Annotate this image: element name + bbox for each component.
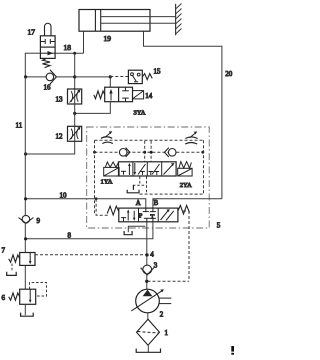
node LS [145,280,148,283]
check valve C2 [165,148,177,157]
sq1 marks [121,170,126,172]
svg-text:2: 2 [160,311,164,319]
check valve C1 [119,148,130,157]
solenoid valve 14 [94,87,144,102]
svg-text:3: 3 [154,262,158,270]
right pilot dashed (LS line) [148,211,190,281]
svg-text:1: 1 [165,329,169,337]
svg-text:3YA: 3YA [134,110,146,117]
proportional pilot valve (upper, 1YA/2YA) [119,162,177,176]
drain to tank under main valve [128,226,145,232]
svg-text:14: 14 [145,92,153,100]
wire to switch and valve 14 [75,76,111,78]
node 4 [145,253,148,256]
svg-text:B: B [154,200,159,207]
check valve 16 [25,70,74,84]
air bleed right [185,131,197,144]
svg-text:P: P [139,212,143,219]
pressure switch 15 [128,70,152,83]
wire between 13 and 12 [74,104,76,126]
node 74.7,76.9 [73,75,76,78]
svg-text:8: 8 [68,232,72,240]
spring left of main valve [107,206,119,215]
throttle valve 13 [68,89,82,104]
sequence valve 7 [9,253,35,266]
left rail line 11 [24,77,26,215]
svg-text:4: 4 [150,251,154,259]
sq3 marks [149,171,154,173]
wire 7 to 6 [24,265,26,289]
tank under 6 [21,313,34,317]
svg-text:A: A [136,200,141,207]
svg-text:9: 9 [37,217,41,225]
outer dash-dot box (manifold 5) [87,127,210,228]
svg-text:13: 13 [56,96,64,104]
inner dashed box [95,140,204,215]
svg-text:6: 6 [2,294,6,302]
wire line 20 to B port [153,199,222,208]
svg-text:T: T [150,213,154,220]
wire cylinder right port to line 20 [144,31,222,199]
sq3 marks [161,210,169,220]
svg-text:16: 16 [44,84,52,92]
air bleed left [101,131,113,143]
tank under pilot valve [127,185,139,193]
throttle valve 12 [68,126,82,141]
tank under main valve [124,231,132,235]
valve 6 pilot dashed loop [30,283,47,297]
sq2 center closed stubs [145,208,147,212]
cylinder 19 [79,10,176,32]
svg-text:7: 7 [2,247,6,255]
wire valve12 bottom to left rail [25,141,74,154]
wire 6 to tank [24,304,26,315]
wire line 18 [25,53,84,77]
valve 17 (manual 2/2 with push button and spring) [40,23,55,67]
svg-text:15: 15 [154,68,162,76]
wire valve14 bottom [75,102,111,114]
relief valve 6 [9,289,36,304]
wire line 10 [25,199,146,208]
filter 1 [137,319,160,345]
wire pump to filter [147,313,149,320]
pilot valve drains [133,177,147,195]
stray mark bottom right [231,346,234,352]
dashed drops to pilot valve [145,141,151,162]
node 25.8,76.9 [24,75,27,78]
solenoid 1YA [104,162,119,176]
wire check9 to line8 [24,223,26,252]
tank main [136,349,160,353]
valve 7 drain [11,264,13,272]
sq1 marks [121,217,126,219]
valve 7 pilot dashed to node 4 [35,254,147,256]
svg-text:20: 20 [225,70,233,78]
svg-text:2YA: 2YA [180,182,192,189]
wire cylinder left port [83,31,85,53]
sq4 marks [164,164,174,174]
T line down to line 8 [25,222,153,239]
sq2 marks [134,163,136,174]
svg-text:1YA: 1YA [101,179,113,186]
pilot rail dashed y=152.2 [95,151,204,153]
pump 2 [131,289,171,313]
svg-text:10: 10 [60,192,68,200]
solenoid 2YA [178,162,192,176]
check valve 9 [19,215,34,223]
main valve (lower 3-position) [119,208,178,222]
svg-text:17: 17 [28,28,36,37]
left pilot dashed [96,199,108,215]
svg-text:12: 12 [56,133,64,141]
svg-text:19: 19 [104,34,112,43]
anchor wall [176,4,182,36]
check valve 3 [141,265,154,275]
svg-text:18: 18 [64,43,72,52]
wire filter to tank [147,345,149,352]
wire vertical x=74.7 [74,53,76,89]
svg-text:5: 5 [217,222,221,230]
svg-text:11: 11 [16,122,23,130]
spring right of main valve [178,205,190,214]
node at 74.7,53 [73,52,76,55]
P line down from valve [146,222,148,289]
